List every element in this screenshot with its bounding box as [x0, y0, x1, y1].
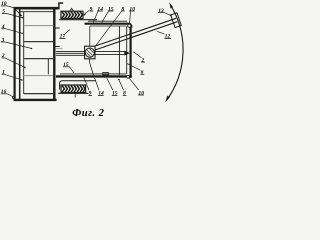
- right box right wall inner: [126, 27, 128, 74]
- leader for label 16: [7, 94, 12, 97]
- top spring block outline: [61, 11, 83, 18]
- right box bottom thick edge: [56, 75, 132, 77]
- underline label 16: [1, 93, 8, 95]
- leader for top label 8: [96, 11, 122, 45]
- underline label 10 left: [1, 5, 7, 7]
- leader for top label 14: [93, 11, 98, 22]
- leader for label 4: [6, 29, 22, 34]
- leader for bottom label 8: [119, 80, 123, 90]
- leader for bottom label 10: [129, 78, 139, 90]
- svg-text:13: 13: [158, 8, 164, 14]
- bottom block base line: [58, 92, 88, 94]
- shelf 4: [24, 75, 54, 77]
- svg-text:9: 9: [89, 91, 92, 97]
- underline top label 8: [121, 10, 124, 12]
- shaft line 2: [56, 52, 84, 54]
- pivot circle: [85, 48, 94, 57]
- pivot hanger line: [89, 26, 91, 46]
- clamp on rod end: [171, 13, 182, 28]
- underline top label 10: [129, 10, 135, 12]
- shaft line 3: [56, 54, 84, 56]
- underline label 5: [2, 12, 6, 14]
- shelf 2: [24, 41, 54, 43]
- svg-text:Фиг. 2: Фиг. 2: [72, 108, 104, 119]
- underline label 6 right: [140, 73, 144, 75]
- underline mid label 15: [63, 66, 70, 68]
- inner divider vertical: [118, 27, 120, 76]
- svg-text:3: 3: [0, 37, 4, 43]
- platform line under top block: [59, 19, 97, 21]
- leader for top label 10: [130, 11, 131, 24]
- svg-text:10: 10: [1, 1, 7, 7]
- underline label 2: [1, 57, 5, 59]
- leader for label 6 right: [127, 63, 141, 70]
- svg-text:15: 15: [112, 91, 118, 97]
- pivot circle hatch: [86, 49, 93, 57]
- leader for top label 15: [102, 11, 109, 22]
- leader for label 13: [164, 13, 171, 16]
- svg-text:2: 2: [1, 53, 5, 59]
- arc bottom arrowhead: [165, 96, 170, 103]
- partial inner left wall of right box: [47, 59, 49, 74]
- svg-text:14: 14: [98, 91, 104, 97]
- svg-text:12: 12: [165, 34, 171, 40]
- dot for bottom label 8: [118, 79, 120, 81]
- underline label 13: [158, 12, 164, 14]
- caret mark above top spring block: [70, 8, 74, 11]
- right box right wall outer: [130, 27, 132, 78]
- svg-text:10: 10: [129, 6, 135, 12]
- underline bottom label 10: [138, 94, 144, 96]
- left box inner lining bottom: [24, 93, 54, 95]
- underline bottom label 9: [88, 94, 92, 96]
- corner circle top right: [128, 24, 131, 27]
- left box outer bottom edge: [14, 99, 57, 101]
- shelf 1: [24, 25, 54, 27]
- lever rod upper line: [94, 18, 176, 46]
- leader for top label 9: [84, 11, 89, 15]
- leader for label 3: [5, 42, 31, 48]
- underline top label 15: [108, 10, 114, 12]
- left box inner lining top: [20, 11, 54, 13]
- underline bottom label 15: [112, 94, 118, 96]
- shelf 3: [24, 58, 54, 60]
- left box right wall: [53, 8, 55, 101]
- underline label 12: [164, 37, 171, 39]
- bottom spring block outline: [61, 85, 86, 93]
- shaft right section line 2: [95, 54, 125, 56]
- left box inner lining left: [23, 12, 25, 94]
- leader for label 17: [65, 30, 70, 34]
- dot for label 1: [21, 79, 23, 81]
- svg-text:8: 8: [123, 91, 126, 97]
- underline label 17: [59, 37, 65, 39]
- bottom spring block chevron hatch: [62, 85, 85, 92]
- right box bottom inner thin line: [60, 73, 126, 75]
- leader for label 2: [6, 58, 25, 67]
- leader for label 5: [6, 13, 22, 17]
- shaft end arrowhead: [124, 51, 130, 56]
- svg-text:2: 2: [140, 57, 144, 63]
- right box top inner thin line: [88, 20, 127, 22]
- svg-text:4: 4: [1, 24, 5, 30]
- left box outer top edge: [14, 7, 59, 10]
- svg-text:8: 8: [121, 6, 124, 12]
- underline label 3: [1, 41, 5, 43]
- circle for label 16: [12, 96, 15, 99]
- svg-text:16: 16: [1, 89, 7, 95]
- right wall tab 2: [56, 46, 60, 48]
- shaft right section line 1: [95, 51, 125, 53]
- svg-text:1: 1: [2, 70, 5, 76]
- pivot square: [85, 46, 95, 59]
- leader for label 10 left: [7, 6, 21, 15]
- leader for bottom label 9: [84, 78, 89, 90]
- svg-text:6: 6: [141, 70, 144, 76]
- leader for label 1: [5, 75, 22, 80]
- bottom edge tab: [103, 73, 109, 75]
- top spring block chevron hatch: [62, 12, 82, 18]
- svg-text:15: 15: [108, 6, 114, 12]
- leader for bottom label 15: [107, 78, 113, 90]
- swing arc: [166, 5, 183, 101]
- svg-text:5: 5: [2, 9, 5, 15]
- left box second left wall line: [19, 9, 21, 99]
- underline top label 14: [97, 10, 103, 12]
- underline top label 9: [89, 10, 93, 12]
- svg-text:15: 15: [63, 62, 69, 68]
- underline bottom label 14: [98, 94, 104, 96]
- step bracket top right of left box: [59, 3, 63, 9]
- underline label 4: [1, 28, 5, 30]
- leader for bottom label 14: [95, 78, 99, 90]
- leader for label 2 right: [133, 52, 141, 58]
- shaft faint upper line: [56, 48, 63, 50]
- dot for label 4: [21, 33, 22, 34]
- pivot lower stub and link: [90, 59, 94, 75]
- dot for label 2: [24, 67, 26, 69]
- svg-text:10: 10: [138, 90, 144, 96]
- leader for label 12: [157, 31, 164, 34]
- svg-text:14: 14: [97, 6, 103, 12]
- svg-text:17: 17: [60, 34, 66, 40]
- underline bottom label 8: [123, 94, 127, 96]
- dot for label 3: [31, 48, 32, 49]
- tick below bottom block: [74, 94, 76, 98]
- lever rod lower line: [95, 22, 177, 50]
- arc top arrowhead: [169, 2, 173, 8]
- right box top thick edge: [85, 24, 132, 28]
- left box outer left wall: [14, 7, 16, 101]
- corner circle bottom right: [127, 75, 130, 78]
- leader for mid label 15: [70, 67, 75, 73]
- shaft line 1: [56, 50, 84, 52]
- right wall tab 1: [56, 27, 60, 29]
- underline label 2 right: [141, 61, 145, 63]
- bottom bracket with rounded corner: [60, 81, 96, 90]
- dot for label 5: [22, 17, 23, 18]
- underline label 1: [2, 73, 5, 75]
- svg-text:9: 9: [90, 6, 93, 12]
- right box top second thin line: [90, 25, 127, 27]
